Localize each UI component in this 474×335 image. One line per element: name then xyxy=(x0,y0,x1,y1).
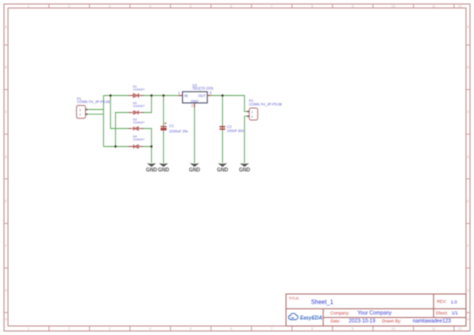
wire: P1 pin1 stub xyxy=(86,113,104,115)
svg-text:100nF 63v: 100nF 63v xyxy=(227,129,244,133)
svg-text:5: 5 xyxy=(190,4,192,8)
svg-text:namtawadee123: namtawadee123 xyxy=(413,319,451,325)
svg-text:2: 2 xyxy=(251,115,253,119)
svg-text:12: 12 xyxy=(458,4,462,8)
wire: D4 row right of symbol xyxy=(141,146,152,148)
frame ticks left xyxy=(4,45,8,313)
svg-text:E: E xyxy=(467,199,469,203)
svg-text:F: F xyxy=(5,244,7,248)
svg-text:10: 10 xyxy=(391,4,395,8)
svg-text:11: 11 xyxy=(432,327,436,331)
svg-text:8: 8 xyxy=(311,4,313,8)
svg-text:7: 7 xyxy=(271,4,273,8)
svg-text:1N4007: 1N4007 xyxy=(133,104,145,108)
regulator U1 xyxy=(178,83,213,108)
svg-text:E: E xyxy=(5,199,7,203)
svg-text:6: 6 xyxy=(230,4,232,8)
svg-text:1N4007: 1N4007 xyxy=(133,88,145,92)
node: bottom wire / D3-D4 bus xyxy=(150,145,152,147)
wire: bottom net y=146.5 xyxy=(104,146,152,148)
node: D1 cathode bus xyxy=(150,94,152,96)
frame ticks top xyxy=(49,4,454,8)
svg-text:1: 1 xyxy=(251,110,253,114)
svg-text:2: 2 xyxy=(191,104,193,108)
wire: D2 row left with vertical x=115.5 xyxy=(116,113,132,147)
svg-text:1: 1 xyxy=(178,91,180,95)
svg-text:C1: C1 xyxy=(169,124,174,128)
svg-text:B: B xyxy=(5,66,7,70)
svg-text:Sheet_1: Sheet_1 xyxy=(311,300,334,306)
svg-text:3: 3 xyxy=(109,327,111,331)
wire: P1 pin2 stub xyxy=(86,109,104,111)
svg-text:2023-10-19: 2023-10-19 xyxy=(349,319,376,325)
wire: top net from P1 corner to U1 IN xyxy=(104,95,179,97)
svg-text:4: 4 xyxy=(149,4,151,8)
wire: P2 pin2 to GND xyxy=(245,116,250,163)
svg-text:REV:: REV: xyxy=(437,299,447,304)
svg-text:11: 11 xyxy=(432,4,436,8)
diode D4 (mirrored) xyxy=(128,134,145,148)
svg-text:GND: GND xyxy=(217,167,229,173)
svg-text:9: 9 xyxy=(352,4,354,8)
svg-text:TITLE:: TITLE: xyxy=(289,296,300,300)
node: C2 tap xyxy=(221,94,223,96)
wire: vertical left bus x=103.5 xyxy=(103,96,105,147)
svg-text:2: 2 xyxy=(68,327,70,331)
ground symbol 4 xyxy=(217,163,229,173)
svg-text:Sheet:: Sheet: xyxy=(436,310,448,315)
svg-text:1: 1 xyxy=(28,327,30,331)
svg-text:8: 8 xyxy=(311,327,313,331)
diode D3 (mirrored) xyxy=(128,118,145,131)
ground symbol 2 xyxy=(158,163,170,173)
svg-text:CONN-TH_2P-P5.08: CONN-TH_2P-P5.08 xyxy=(249,102,282,106)
capacitor C2 xyxy=(220,125,245,133)
svg-text:GND: GND xyxy=(146,167,158,173)
svg-text:IN: IN xyxy=(184,94,188,98)
node: top wire / P1 riser xyxy=(109,94,111,96)
ground symbol 1 xyxy=(146,163,158,173)
svg-text:Your Company: Your Company xyxy=(358,311,393,317)
svg-text:EasyEDA: EasyEDA xyxy=(300,315,323,321)
wire: vertical x=110 from top wire to D3 row xyxy=(111,96,132,129)
svg-text:3: 3 xyxy=(210,91,212,95)
connector P1 xyxy=(77,97,110,119)
junction dots xyxy=(109,94,223,147)
svg-text:7: 7 xyxy=(271,327,273,331)
svg-text:GND: GND xyxy=(191,100,199,104)
EasyEDA logo xyxy=(289,313,323,321)
connector P2 xyxy=(247,99,282,120)
svg-text:GND: GND xyxy=(158,167,170,173)
diode D1 xyxy=(129,85,145,98)
svg-text:6: 6 xyxy=(230,327,232,331)
svg-text:1N4007: 1N4007 xyxy=(133,121,145,125)
svg-text:2200uF 25v: 2200uF 25v xyxy=(169,129,188,133)
frame ticks bottom xyxy=(49,326,454,331)
svg-text:GND: GND xyxy=(239,167,251,173)
svg-text:Company:: Company: xyxy=(330,310,349,315)
svg-text:Drawn By:: Drawn By: xyxy=(382,318,401,323)
wire: C1 branch x=164 xyxy=(163,96,165,164)
wire: U1 OUT to P2 pin1 xyxy=(211,96,249,112)
svg-text:1: 1 xyxy=(28,4,30,8)
svg-text:Date:: Date: xyxy=(331,318,341,323)
svg-text:C2: C2 xyxy=(227,125,232,129)
svg-text:CONN-TH_2P-P5.08: CONN-TH_2P-P5.08 xyxy=(77,100,110,104)
node: C1 tap xyxy=(162,94,164,96)
svg-text:7812(TO-220): 7812(TO-220) xyxy=(192,87,213,91)
frame ticks right xyxy=(466,45,470,313)
svg-text:5: 5 xyxy=(190,327,192,331)
svg-text:4: 4 xyxy=(149,327,151,331)
wire: C2 branch x=222.5 xyxy=(222,96,224,164)
svg-text:12: 12 xyxy=(458,327,462,331)
svg-text:9: 9 xyxy=(352,327,354,331)
capacitor C1 xyxy=(161,122,189,133)
svg-text:B: B xyxy=(467,66,469,70)
ground symbol 5 xyxy=(239,163,251,173)
node: bottom wire / D2 riser xyxy=(114,145,116,147)
ground symbol 3 xyxy=(189,163,201,173)
svg-text:2: 2 xyxy=(79,108,81,112)
svg-text:1.0: 1.0 xyxy=(451,299,458,304)
svg-text:GND: GND xyxy=(189,167,201,173)
svg-text:1N4007: 1N4007 xyxy=(133,137,145,141)
svg-text:OUT: OUT xyxy=(198,94,206,98)
svg-text:3: 3 xyxy=(109,4,111,8)
diode D2 xyxy=(129,101,145,114)
svg-text:10: 10 xyxy=(391,327,395,331)
svg-text:1: 1 xyxy=(79,113,81,117)
wire: D1-D2 cathode link x=151.5 xyxy=(141,96,152,113)
wire: D3-D4 right link x=151.5 down to GND xyxy=(141,129,152,164)
svg-text:F: F xyxy=(467,244,469,248)
wire: U1 GND down xyxy=(194,108,196,164)
svg-text:2: 2 xyxy=(68,4,70,8)
svg-text:1/1: 1/1 xyxy=(452,310,459,315)
